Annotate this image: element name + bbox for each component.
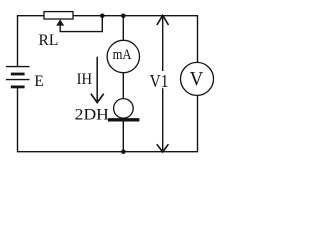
wire left lower (17, 87, 19, 152)
voltage span arrow V1 (157, 15, 169, 152)
battery E (6, 67, 30, 87)
resistor RL body (44, 12, 73, 19)
ammeter mA (107, 40, 139, 72)
hall element 2DH body (114, 99, 134, 119)
voltmeter V (181, 62, 214, 95)
wire wiper loop (60, 16, 102, 32)
resistor RL wiper arrow (56, 19, 64, 25)
svg-text:V1: V1 (150, 71, 169, 91)
svg-text:2DH: 2DH (75, 107, 109, 124)
svg-text:mA: mA (113, 47, 132, 63)
wire top (17, 15, 198, 17)
wire ammeter branch (122, 16, 124, 152)
node junction dot A (wiper tap) (100, 14, 105, 19)
svg-text:RL: RL (39, 32, 59, 49)
svg-text:V: V (190, 68, 204, 90)
wire left upper (17, 16, 19, 67)
wire bottom (17, 151, 198, 153)
current arrow IH (91, 57, 104, 103)
node junction dot C (ammeter branch bottom) (121, 149, 126, 154)
node junction dot B (ammeter branch top) (121, 14, 126, 19)
svg-text:IH: IH (77, 70, 93, 88)
wire right (197, 16, 199, 152)
hall element 2DH base plate (108, 118, 139, 121)
svg-text:E: E (34, 71, 43, 90)
